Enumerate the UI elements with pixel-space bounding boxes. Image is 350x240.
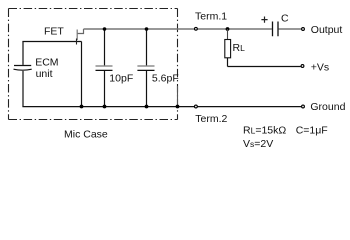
enclosure Mic Case border right edge bbox=[177, 9, 179, 120]
terminal +Vs bbox=[301, 65, 304, 68]
wire top rail right of capacitor C (gray) bbox=[279, 28, 302, 30]
enclosure Mic Case border bottom edge bbox=[9, 119, 178, 121]
svg-text:Vs=2V: Vs=2V bbox=[243, 138, 273, 150]
junction dot bottom rail at case border bbox=[176, 105, 180, 109]
svg-text:Mic Case: Mic Case bbox=[64, 128, 108, 140]
svg-text:+Vs: +Vs bbox=[311, 62, 329, 74]
svg-text:10pF: 10pF bbox=[109, 73, 133, 85]
svg-text:C: C bbox=[281, 13, 289, 25]
enclosure Mic Case border top edge bbox=[9, 8, 178, 10]
svg-text:Term.1: Term.1 bbox=[195, 10, 227, 22]
svg-text:Term.2: Term.2 bbox=[195, 113, 227, 125]
svg-text:ECM: ECM bbox=[35, 57, 58, 69]
transistor FET gate bar bbox=[76, 39, 78, 45]
wire bottom rail (ground rail) bbox=[22, 106, 301, 108]
svg-text:5.6pF: 5.6pF bbox=[152, 73, 179, 85]
junction dot bottom rail at C2 bbox=[103, 105, 107, 109]
resistor RL top lead bbox=[227, 29, 229, 40]
capacitor C3 5.6pF bottom lead bbox=[146, 70, 148, 106]
junction dot bottom rail at C3 bbox=[145, 105, 149, 109]
svg-text:FET: FET bbox=[44, 25, 64, 37]
wire ECM top edge (gate lead) bbox=[22, 41, 81, 43]
electret capsule top plate bbox=[14, 65, 31, 67]
capacitor C2 10pF bottom lead bbox=[104, 70, 106, 106]
wire to +Vs terminal bbox=[228, 66, 301, 68]
wire case shield connection to bottom rail bbox=[177, 86, 179, 106]
svg-text:Ground: Ground bbox=[310, 101, 345, 113]
terminal Output bbox=[302, 28, 305, 31]
terminal Term.1 bbox=[195, 27, 198, 30]
capacitor C3 5.6pF bottom plate bbox=[137, 69, 154, 71]
svg-text:RL: RL bbox=[233, 42, 246, 54]
svg-text:unit: unit bbox=[36, 68, 53, 80]
capacitor C2 10pF top lead bbox=[104, 29, 106, 65]
svg-text:RL=15kΩ: RL=15kΩ bbox=[243, 124, 286, 136]
enclosure Mic Case border left edge bbox=[8, 9, 10, 120]
electret capsule bottom plate (curved) bbox=[14, 69, 32, 70]
capacitor C3 5.6pF top plate (gray) bbox=[137, 65, 154, 67]
terminal Ground bbox=[302, 105, 305, 108]
terminal Term.2 bbox=[195, 105, 198, 108]
wire ECM left edge lower bbox=[22, 71, 24, 107]
label + polarity bbox=[261, 17, 267, 23]
capacitor C3 5.6pF top lead bbox=[146, 29, 148, 65]
junction dot bottom rail at FET source bbox=[80, 105, 84, 109]
capacitor C2 10pF bottom plate bbox=[96, 69, 113, 71]
junction dot top rail at C3 bbox=[145, 27, 149, 31]
wire top rail (drain rail, gray) bbox=[84, 28, 272, 30]
wire FET source vertical bbox=[81, 42, 83, 107]
capacitor C1 output coupling plates bbox=[273, 22, 279, 37]
transistor FET drain step (gray) bbox=[77, 29, 83, 34]
junction dot top rail at RL bbox=[226, 27, 230, 31]
transistor FET channel bar (gray) bbox=[76, 30, 78, 41]
junction dot top rail at C2 bbox=[103, 27, 107, 31]
wire ECM left edge upper bbox=[22, 42, 24, 65]
svg-text:Output: Output bbox=[311, 24, 343, 36]
svg-text:C=1μF: C=1μF bbox=[296, 124, 328, 136]
resistor RL bottom lead bbox=[227, 58, 229, 67]
resistor RL body bbox=[225, 40, 231, 58]
capacitor C2 10pF top plate (gray) bbox=[96, 65, 113, 67]
